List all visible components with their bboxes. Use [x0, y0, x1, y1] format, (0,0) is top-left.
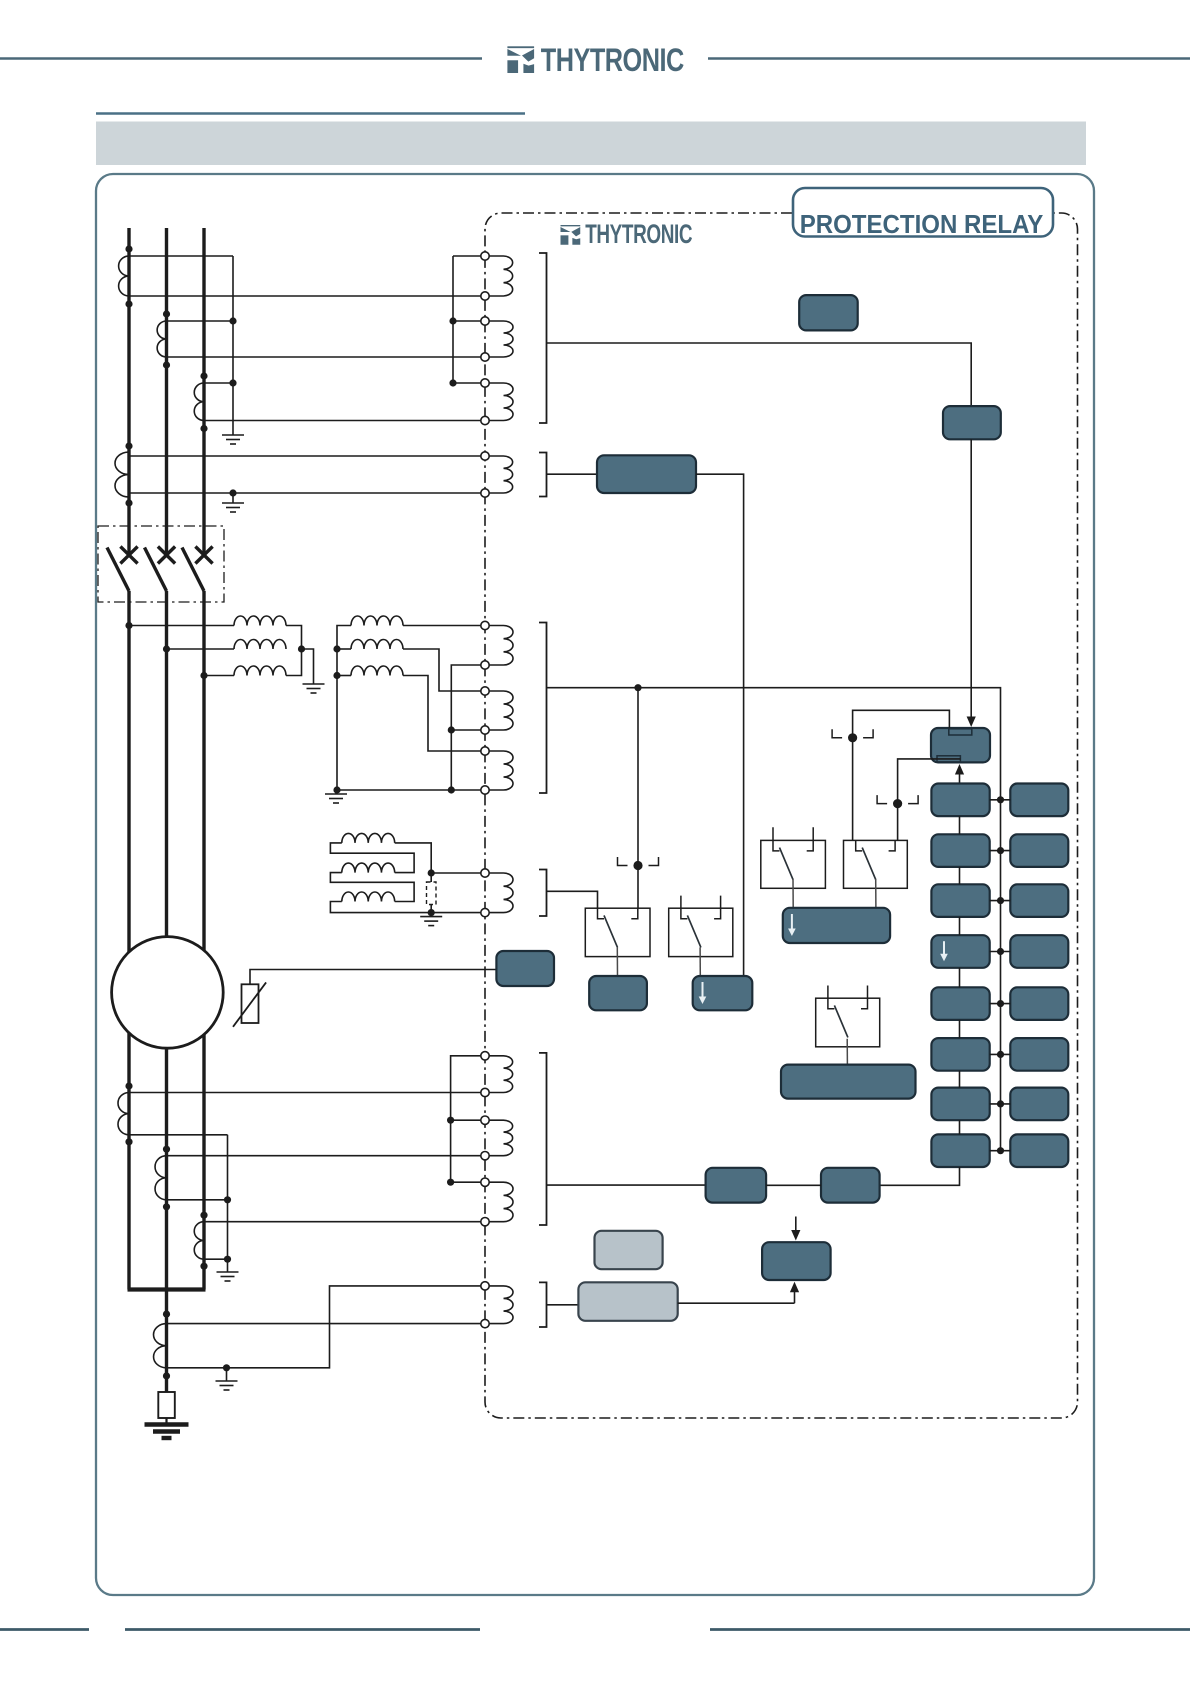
node below CT T2 — [163, 361, 170, 368]
core-balance CT on L1 — [115, 452, 129, 497]
phase bus L3 — [202, 228, 205, 558]
node VT primary star point — [298, 645, 305, 652]
relay terminal pair + coil (phase voltage U1) — [481, 621, 489, 629]
relay terminal pair + coil (residual voltage U0) — [481, 869, 489, 877]
node below CT N1 — [125, 1138, 132, 1145]
node secondary star c — [333, 672, 340, 679]
grey block: synchro input — [578, 1282, 677, 1321]
relay terminal pair + coil (neutral-side current I2) — [481, 1116, 489, 1124]
VT secondary winding b — [351, 640, 403, 650]
signal block K2 (self reset) — [693, 976, 753, 1010]
bracket: IN ADC — [539, 1282, 547, 1327]
node open-delta output 1 — [428, 869, 435, 876]
node open-delta output 2 — [428, 909, 435, 916]
output contact K2 — [669, 896, 733, 957]
relay terminal pair + coil (neutral-side current I1) — [481, 1052, 489, 1060]
wire I0 bracket to reference block — [547, 473, 598, 475]
wire CT T2 S1 lead to common bus — [167, 320, 234, 322]
node N bus 3 — [224, 1256, 231, 1263]
node voltage return 2 — [448, 726, 455, 733]
svg-text:PROTECTION RELAY: PROTECTION RELAY — [800, 209, 1044, 239]
Thytronic logo (inside relay) — [561, 225, 581, 245]
wire K1 to signal block — [616, 947, 618, 976]
arrow down into logic block C — [795, 1217, 797, 1232]
node row 2 on function bus — [997, 847, 1004, 854]
wire CT T3 S1 lead to common bus — [204, 382, 233, 384]
wire U0 ADC to output contact K1 — [547, 891, 598, 908]
wire CT N1 S1 to relay — [129, 1092, 481, 1094]
wire neutral CT S2 to relay (staircase) — [167, 1286, 482, 1368]
earth of CT N bus — [217, 1268, 239, 1281]
node row 6 on function bus — [997, 1051, 1004, 1058]
protection function block row 3 (left) — [931, 884, 989, 917]
node: neutral below CT — [163, 1372, 170, 1379]
wire toroid S1 to relay — [129, 455, 481, 457]
protection function block row 2 (left) — [931, 834, 989, 867]
wire K2 to signal block — [699, 947, 701, 976]
node: neutral CT top — [163, 1311, 170, 1318]
bracket: U0 ADC — [539, 870, 547, 917]
wire CT N2 S2 to common bus — [167, 1199, 228, 1201]
wire VT primary star — [286, 626, 302, 676]
CT T1 on phase L1 — [119, 256, 129, 296]
wire relay-side return bus (bottom CTs) — [451, 1056, 481, 1182]
wire row 8 link — [990, 1150, 1011, 1152]
earth of VT primary — [303, 680, 325, 693]
wire row 6 link — [990, 1053, 1011, 1055]
node below toroid — [125, 499, 132, 506]
wire row 5 link — [990, 1003, 1011, 1005]
neutral conductor — [165, 1290, 168, 1393]
bracket: voltage ADC group — [539, 623, 547, 794]
protection function block row 5 (left) — [931, 987, 989, 1020]
wire open-delta series link 1-2 — [330, 843, 414, 873]
wire row 7 link — [990, 1103, 1011, 1105]
function block: I0 input conditioning — [597, 455, 696, 493]
wire chain segment 3 — [959, 917, 961, 935]
wire tap to contact K4 right stub — [897, 804, 899, 841]
phase bus L2 — [165, 228, 168, 558]
wire IN ADC to synchro block — [547, 1304, 579, 1306]
node neutral CT earth tap — [223, 1364, 230, 1371]
wire open-delta end 1 to relay — [395, 843, 481, 873]
CT T2 on phase L2 — [157, 321, 166, 357]
neutral line to earth — [165, 1418, 167, 1423]
earth of CT common bus — [222, 431, 244, 444]
wire K4 to signal block — [875, 879, 877, 908]
output contact K5 — [816, 986, 880, 1047]
Thytronic logo (header) — [507, 46, 534, 73]
grey block: serial communication (floating) — [595, 1231, 663, 1269]
node below CT T1 — [125, 300, 132, 307]
wire toroid S2 to relay — [129, 492, 481, 494]
footer rule left — [0, 1628, 89, 1631]
node row 4 on function bus — [997, 948, 1004, 955]
footer rule middle — [125, 1628, 480, 1631]
star-point bar — [128, 1287, 206, 1291]
logic block C — [762, 1242, 831, 1280]
function block: current processing — [943, 406, 1001, 439]
open-delta winding 1 — [342, 833, 395, 843]
wire chain segment 5 — [959, 1020, 961, 1038]
trip block — [931, 728, 990, 762]
wire row 1 link — [990, 799, 1011, 801]
relay terminal pair + coil (phase voltage U2) — [481, 687, 489, 695]
wire chain segment 2 — [959, 867, 961, 884]
signal block K1 — [589, 976, 647, 1010]
signal block K3/K4 (self reset) — [783, 908, 890, 943]
CT T3 on phase L3 — [194, 383, 204, 421]
VT secondary winding c — [351, 666, 403, 676]
wire row 4 link — [990, 951, 1011, 953]
wire thermistor to relay RTD input — [250, 970, 496, 985]
wire CT T1 S2 lead to relay terminal — [129, 295, 481, 297]
wire CT N common bus to earth — [227, 1135, 229, 1268]
node above CT N1 — [125, 1082, 132, 1089]
node row 7 on function bus — [997, 1100, 1004, 1107]
wire current chain down to trip block — [970, 439, 972, 710]
CT N3 on phase L3 (neutral side) — [194, 1222, 204, 1260]
wire chain segment 6 — [959, 1071, 961, 1088]
node row 5 on function bus — [997, 1000, 1004, 1007]
arrow from function chain into trip block bottom — [959, 773, 961, 784]
node bus/CT T2 — [229, 317, 236, 324]
logic block A — [706, 1168, 767, 1203]
VT primary winding L2 — [167, 648, 235, 650]
wire CT T2 S2 lead to relay terminal — [167, 356, 482, 358]
wire VT primary star to earth — [302, 649, 314, 680]
breaker pole 2 (X contact + blade) — [158, 547, 175, 564]
wire A-B — [766, 1184, 821, 1186]
relay terminal pair + coil (phase voltage U3) — [481, 747, 489, 755]
wire conditioning block output down to comparator — [696, 474, 744, 975]
wire relay-side return bus (top CTs) — [452, 256, 454, 383]
tap node K2 — [618, 857, 659, 866]
wire row 2 link — [990, 850, 1011, 852]
earth of neutral CT — [226, 1368, 228, 1377]
protection function block row 1 (left) — [931, 784, 989, 817]
node row 3 on function bus — [997, 897, 1004, 904]
header rule left — [0, 57, 482, 59]
relay terminal pair + coil (earthing current IN) — [481, 1282, 489, 1290]
relay terminal pair + input coil (phase current I2) — [481, 317, 489, 325]
header rule right — [708, 57, 1190, 59]
node above CT N3 — [200, 1212, 207, 1219]
protection function block row 7 (left) — [931, 1088, 989, 1121]
wire open-delta end 3 to relay — [330, 902, 481, 913]
node above toroid — [125, 442, 132, 449]
tap node K4 left — [832, 729, 873, 738]
circuit breaker dash-dot box — [98, 526, 224, 602]
measurement block row 6 (right) — [1010, 1038, 1068, 1071]
earth (heavy) — [145, 1425, 189, 1439]
wire open-delta series link 2-3 — [330, 873, 414, 902]
relay terminal pair + input coil (phase current I3) — [481, 379, 489, 387]
VT secondary winding a — [351, 616, 403, 626]
output contact K1 — [585, 908, 650, 956]
relay terminal pair + coil (neutral-side current I3) — [481, 1178, 489, 1186]
measurement block row 1 (right) — [1010, 784, 1068, 817]
node below CT N3 — [200, 1263, 207, 1270]
measurement block row 5 (right) — [1010, 987, 1068, 1020]
wire chain segment 4 — [959, 968, 961, 988]
wire CT N1 S2 to common bus — [129, 1134, 228, 1136]
wire trip output to K4 right — [898, 759, 961, 804]
wire CT common bus to earth — [232, 256, 234, 431]
node VT primary L2 — [163, 645, 170, 652]
node row 8 on function bus — [997, 1147, 1004, 1154]
PROTECTION RELAY label box — [793, 188, 1053, 237]
node above CT T1 — [125, 245, 132, 252]
node voltage branch — [634, 684, 641, 691]
motor circle M — [112, 937, 224, 1049]
node above CT T2 — [163, 310, 170, 317]
phase bus L1 — [127, 228, 130, 558]
wire relay-side voltage return bus — [451, 665, 481, 790]
wire row 3 link — [990, 900, 1011, 902]
node secondary star bottom — [333, 786, 340, 793]
arrow synchro up into logic block C — [794, 1291, 796, 1303]
measurement block row 8 (right) — [1010, 1134, 1068, 1167]
wire chain from bottom blocks — [880, 1167, 960, 1185]
wire chain segment 7 — [959, 1120, 961, 1134]
open-delta winding 2 — [342, 863, 395, 873]
output contact K4 — [844, 840, 908, 888]
protection function block row 8 (left) — [931, 1134, 989, 1167]
node return bus 2 — [449, 317, 456, 324]
measurement block row 2 (right) — [1010, 834, 1068, 867]
bracket: I0 ADC — [539, 453, 547, 497]
wire differential ADC to measuring blocks — [547, 1184, 706, 1186]
function block: RTD input — [496, 951, 554, 986]
wire CT N3 S1 to relay — [204, 1221, 481, 1223]
node voltage return 3 — [448, 786, 455, 793]
wire CT N3 S2 to common bus — [204, 1258, 228, 1260]
bracket: phase-current ADC group — [539, 253, 547, 423]
CT N1 on phase L1 (neutral side) — [118, 1093, 129, 1135]
breaker pole 3 (X contact + blade) — [195, 547, 212, 564]
wire: current ADC group to measuring chain — [547, 343, 972, 406]
node return bus 3 — [449, 379, 456, 386]
wire K5 to signal block — [846, 1039, 848, 1065]
wire trip input from contact K4 left — [853, 710, 950, 738]
output contact K3 — [761, 827, 826, 888]
wire VT a to terminal — [403, 625, 481, 627]
open-delta winding 3 — [342, 892, 395, 902]
wire VT b to terminal (staircase) — [403, 649, 481, 691]
title grey bar — [96, 122, 1086, 166]
measurement block row 3 (right) — [1010, 884, 1068, 917]
wire tap to contact K4 — [852, 738, 854, 841]
wire VT secondary star bus — [337, 626, 481, 791]
node above CT N2 — [163, 1146, 170, 1153]
tap node K4 right — [877, 795, 918, 804]
arrow into trip block — [970, 710, 972, 718]
node VT primary L3 — [200, 672, 207, 679]
footer rule right — [710, 1628, 1190, 1631]
protection function block row 4 (left) — [931, 935, 989, 968]
neutral earthing CT — [154, 1324, 167, 1368]
wire voltage branch to contact K2 — [637, 688, 639, 909]
VT primary winding L3 — [204, 675, 234, 677]
wire N return stub 3 — [451, 1181, 481, 1183]
measurement block row 7 (right) — [1010, 1088, 1068, 1121]
outer page frame — [96, 174, 1094, 1595]
wire relay return stub 1 — [453, 255, 481, 257]
protection function block row 6 (left) — [931, 1038, 989, 1071]
thermistor (PTC) symbol — [242, 984, 259, 1023]
earth of open-delta — [420, 913, 442, 926]
svg-text:THYTRONIC: THYTRONIC — [541, 43, 685, 79]
node row 1 on function bus — [997, 796, 1004, 803]
bracket: differential current ADC group — [539, 1053, 547, 1225]
signal block K5 — [781, 1065, 916, 1099]
CT N2 on phase L2 (neutral side) — [155, 1156, 166, 1200]
wire CT T1 S1 lead to common bus — [129, 255, 233, 257]
neutral grounding resistor — [158, 1392, 175, 1418]
wire VT c to terminal (staircase) — [403, 676, 481, 752]
node below CT N2 — [163, 1203, 170, 1210]
measurement block row 4 (right) — [1010, 935, 1068, 968]
node N return 3 — [447, 1179, 454, 1186]
wire CT N2 S1 to relay — [167, 1155, 482, 1157]
relay terminal pair + input coil (phase current I1) — [481, 252, 489, 260]
wire neutral CT S1 to relay — [167, 1323, 482, 1325]
earth of toroid S2 — [232, 493, 234, 499]
logic block B — [821, 1168, 880, 1203]
node N bus 2 — [224, 1196, 231, 1203]
node VT primary L1 — [125, 622, 132, 629]
title underline — [96, 112, 525, 115]
wire chain segment 1 — [959, 816, 961, 834]
wire synchro to logic — [678, 1302, 795, 1304]
wire relay return stub 3 — [453, 382, 481, 384]
function block: breaker-open command (floating) — [799, 295, 858, 330]
protection relay dash-dot boundary — [485, 213, 1078, 1418]
node bus/CT T3 — [229, 379, 236, 386]
wire CT T3 S2 lead to relay terminal — [204, 420, 481, 422]
wire K3 to signal block — [792, 879, 794, 908]
node below CT T3 — [200, 425, 207, 432]
node secondary star b — [333, 645, 340, 652]
earth of VT secondary — [325, 790, 347, 803]
node N return 2 — [447, 1117, 454, 1124]
node toroid earth tap — [229, 489, 236, 496]
wire relay return stub 2 — [453, 320, 481, 322]
wire voltage ADC to function bus — [547, 688, 1001, 1151]
svg-text:THYTRONIC: THYTRONIC — [585, 219, 692, 249]
node above CT T3 — [200, 372, 207, 379]
VT primary winding L1 — [129, 625, 234, 627]
breaker pole 1 (X contact + blade) — [120, 547, 137, 564]
relay terminal pair + coil (residual current I0) — [481, 452, 489, 460]
damping resistor (dashed) — [427, 882, 437, 905]
